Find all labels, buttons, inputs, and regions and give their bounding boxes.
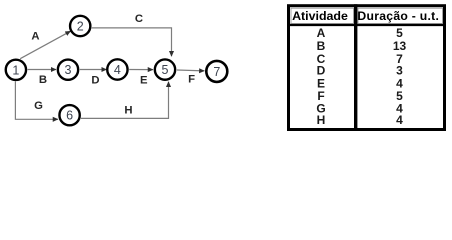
svg-text:G: G <box>34 100 43 112</box>
table column divider <box>354 4 357 131</box>
svg-text:2: 2 <box>77 20 84 34</box>
header cell inner outline right <box>358 8 443 23</box>
node 5 <box>155 59 175 79</box>
node 2 <box>70 16 90 36</box>
table: activity/duration <box>287 4 446 131</box>
wire E: node 4 to node 5 <box>129 69 153 71</box>
svg-text:H: H <box>124 104 132 116</box>
table body column: durations <box>393 26 407 127</box>
wire B: node 1 to node 3 <box>28 69 56 71</box>
table header underline <box>287 24 446 26</box>
svg-text:Atividade: Atividade <box>292 9 348 23</box>
wire D: node 3 to node 4 <box>80 69 107 71</box>
svg-text:6: 6 <box>66 109 73 123</box>
svg-text:13: 13 <box>393 39 407 53</box>
wire G: node 1 down, right into node 6 <box>15 81 58 119</box>
svg-text:E: E <box>140 75 148 87</box>
node 4 <box>107 59 127 79</box>
svg-text:F: F <box>188 74 195 86</box>
svg-text:1: 1 <box>12 63 19 77</box>
wire C: from node 2 right, over and down into node 5 top <box>92 28 172 56</box>
table body column: activities <box>316 26 325 127</box>
svg-text:C: C <box>135 13 143 25</box>
node 6 <box>59 105 79 125</box>
svg-text:D: D <box>91 75 99 87</box>
svg-text:Duração - u.t.: Duração - u.t. <box>357 9 439 23</box>
svg-text:B: B <box>39 74 47 86</box>
svg-text:A: A <box>31 31 39 43</box>
header cell inner outline left <box>291 8 354 23</box>
node 1 <box>6 60 26 80</box>
wire F: node 5 to node 7 <box>177 69 204 72</box>
node 3 <box>58 60 78 80</box>
svg-text:B: B <box>317 39 326 53</box>
svg-text:4: 4 <box>396 113 403 127</box>
node 7 <box>206 61 227 82</box>
svg-text:H: H <box>317 113 326 127</box>
svg-text:3: 3 <box>65 63 72 77</box>
wire H: node 6 right, up into node 5 bottom <box>81 82 169 119</box>
table outer box <box>289 6 445 130</box>
svg-text:4: 4 <box>114 63 121 77</box>
wire A: arc from node 1 to node 2 <box>20 31 70 59</box>
svg-text:5: 5 <box>162 63 169 77</box>
svg-text:7: 7 <box>213 65 220 79</box>
